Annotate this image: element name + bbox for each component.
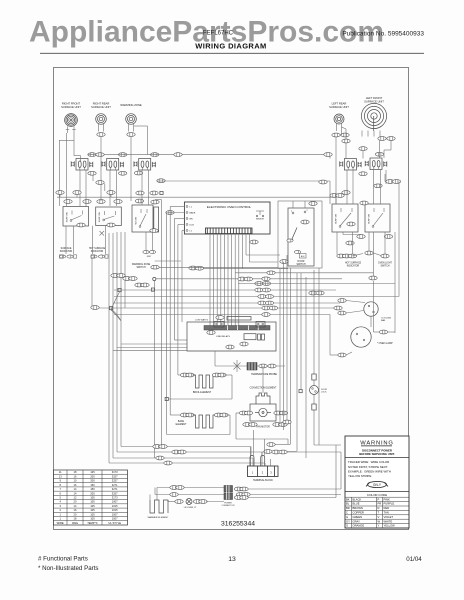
- wire SW1 drops: [80, 170, 86, 206]
- wire EOC pin L1 run: [170, 207, 184, 416]
- svg-text:EXAMPLE: GREEN WIRE WITH: EXAMPLE: GREEN WIRE WITH: [348, 469, 391, 473]
- wire prong feeds: [251, 430, 265, 456]
- terminal block TB1: [248, 455, 279, 482]
- svg-text:ELECTRONIC OVEN CONTROL: ELECTRONIC OVEN CONTROL: [207, 205, 252, 209]
- svg-text:PINK: PINK: [384, 497, 390, 501]
- svg-text:1015: 1015: [112, 504, 118, 508]
- warming zone switch SW3: [134, 153, 159, 175]
- wire SW5 drops: [374, 170, 381, 204]
- svg-text:TEMPERATURE PROBE: TEMPERATURE PROBE: [251, 373, 277, 376]
- wire convection loop: [236, 366, 288, 444]
- wire bottom bus y463: [109, 463, 265, 466]
- wire EOC comb drops: [189, 234, 374, 326]
- junction square broil return: [165, 397, 168, 400]
- wire mid drop x154: [153, 281, 155, 458]
- wire terminal feed drops: [262, 420, 291, 466]
- svg-text:SURF SW: SURF SW: [67, 211, 69, 222]
- junction node left: [110, 307, 113, 310]
- warning box: [345, 436, 409, 528]
- svg-text:WARMER ELEMENT: WARMER ELEMENT: [148, 516, 169, 519]
- svg-text:ORANGE: ORANGE: [353, 524, 365, 528]
- gn-y indicator ovals: [143, 250, 156, 257]
- wire left bundle v3: [116, 232, 118, 452]
- wire EOC pin DLB run: [178, 225, 185, 376]
- wire gauge table: [54, 470, 128, 525]
- svg-text:200: 200: [90, 474, 95, 478]
- warming zone switch label: [132, 263, 151, 269]
- svg-text:SURFACE UNIT: SURFACE UNIT: [91, 105, 111, 109]
- oven relay board K1: [187, 316, 276, 351]
- svg-text:200: 200: [90, 491, 95, 495]
- wire SW3 drops: [142, 170, 149, 205]
- hot surface indicator right label: [345, 261, 362, 267]
- wire twist cross: [111, 292, 121, 321]
- junction node left2: [118, 288, 121, 291]
- svg-text:105: 105: [90, 512, 95, 516]
- svg-text:G: G: [346, 515, 348, 519]
- wire warmer row loop: [150, 488, 224, 502]
- right rear surface unit switch SW2: [102, 153, 127, 176]
- wire B3 bottom drops: [146, 232, 153, 250]
- right block connector ovals: [330, 191, 393, 280]
- wire right bundle v5: [296, 273, 298, 451]
- svg-text:SWITCH: SWITCH: [296, 264, 305, 266]
- svg-text:GREEN: GREEN: [353, 515, 363, 519]
- wire B4 bottom drops: [337, 232, 361, 255]
- convection fan motor M1: [239, 404, 287, 428]
- oven sensor stub: [256, 210, 264, 212]
- comb drop ovals: [189, 266, 204, 270]
- warming zone switch block B3: [132, 199, 153, 232]
- footer functional parts note: [38, 556, 99, 573]
- left rear surface unit coil: [329, 102, 349, 137]
- wire left bundle v5: [124, 232, 126, 308]
- svg-text:HOT SURFACE: HOT SURFACE: [345, 261, 362, 264]
- svg-text:WIRING DIAGRAM: WIRING DIAGRAM: [195, 42, 266, 51]
- wire coil B lead down: [100, 137, 102, 201]
- svg-text:GN/Y: GN/Y: [147, 256, 152, 258]
- svg-text:105: 105: [90, 508, 95, 512]
- oven door switch: [287, 201, 317, 266]
- svg-text:SENSOR: SENSOR: [256, 219, 265, 221]
- junction circle mid: [153, 277, 156, 280]
- connector ovals row y176-192: [73, 179, 165, 195]
- svg-text:3271: 3271: [112, 483, 118, 487]
- wire left bundle v1: [108, 233, 110, 463]
- left front switch block B5: [365, 204, 390, 232]
- wire bus y278.8: [156, 277, 342, 281]
- right circle ovals: [338, 299, 388, 357]
- junction node left3: [151, 288, 154, 291]
- svg-text:# Functional Parts: # Functional Parts: [38, 556, 88, 563]
- svg-text:BR: BR: [346, 506, 350, 510]
- wire B5 bottom drops: [369, 232, 385, 276]
- left front surface unit switch SW5: [365, 152, 387, 187]
- svg-text:105: 105: [90, 500, 95, 504]
- svg-text:LB OVEN LT: LB OVEN LT: [184, 507, 197, 509]
- hot surface indicator label: [89, 247, 108, 258]
- svg-text:SURFACE UNIT: SURFACE UNIT: [364, 99, 384, 103]
- wire SW5 right drop: [385, 170, 387, 184]
- door lock motor M2: [310, 380, 328, 395]
- svg-text:C: C: [346, 511, 348, 515]
- wire bottom bus y452: [117, 451, 341, 453]
- svg-text:HOT SURFACE: HOT SURFACE: [89, 247, 106, 250]
- wire right bundle v6: [300, 273, 302, 390]
- wire SW2 drops: [110, 170, 117, 206]
- left rear switch block B4: [332, 204, 358, 232]
- svg-text:AWG: AWG: [72, 521, 78, 525]
- svg-text:WZ SW: WZ SW: [136, 216, 138, 224]
- connector oval left of door switch: [280, 260, 288, 264]
- svg-text:V: V: [378, 515, 380, 519]
- svg-text:SURFACE UNIT: SURFACE UNIT: [61, 105, 81, 109]
- wire left bundle v4: [120, 232, 122, 447]
- oven lamp LB1: [351, 327, 393, 347]
- svg-text:R: R: [378, 506, 380, 510]
- svg-text:BLACK: BLACK: [353, 497, 362, 501]
- svg-text:BK: BK: [346, 497, 350, 501]
- svg-text:TAN: TAN: [384, 511, 389, 515]
- wire bus y261: [155, 260, 181, 262]
- svg-text:FAN: FAN: [381, 319, 386, 322]
- wire bus y296.5: [114, 296, 399, 298]
- svg-text:200: 200: [90, 479, 95, 483]
- wire coil A left lead: [66, 133, 68, 206]
- svg-text:TERMINAL BLOCK: TERMINAL BLOCK: [253, 479, 273, 482]
- wire right bundle v7: [305, 277, 307, 458]
- convection element label: [250, 388, 277, 390]
- svg-text:YELLOW: YELLOW: [384, 524, 396, 528]
- svg-text:DLB: DLB: [190, 225, 195, 227]
- bus right ovals: [309, 291, 342, 310]
- svg-text:* OVEN LAMP: * OVEN LAMP: [377, 342, 393, 345]
- svg-text:BL: BL: [346, 502, 350, 506]
- svg-text:BAKE: BAKE: [190, 212, 196, 215]
- junction square x161: [160, 191, 163, 194]
- svg-text:NOTED FIRST, STRIPE NEXT.: NOTED FIRST, STRIPE NEXT.: [348, 465, 388, 469]
- svg-text:1015: 1015: [112, 508, 118, 512]
- diagram border frame: [54, 68, 409, 530]
- svg-text:105: 105: [90, 517, 95, 521]
- svg-text:INDICATOR: INDICATOR: [347, 264, 360, 267]
- wire coil D right jog: [342, 127, 351, 159]
- svg-text:BEFORE SERVICING UNIT.: BEFORE SERVICING UNIT.: [359, 452, 395, 456]
- svg-text:01/04: 01/04: [406, 556, 422, 563]
- svg-text:FAN MOTOR: FAN MOTOR: [256, 425, 270, 428]
- wire motor links: [330, 301, 395, 356]
- svg-text:PR: PR: [378, 502, 382, 506]
- wire coil A right jog: [59, 140, 74, 206]
- wire jogs to y197: [60, 175, 111, 197]
- cooling fan motor M3: [364, 302, 392, 322]
- svg-text:125: 125: [90, 470, 95, 474]
- wire bus y181: [157, 180, 330, 204]
- wire power lines right: [248, 445, 341, 498]
- surface indicator label: [59, 247, 76, 258]
- wire right bundle v4: [290, 268, 292, 444]
- svg-text:FEFL67HC: FEFL67HC: [203, 31, 234, 37]
- svg-text:3257: 3257: [112, 491, 118, 495]
- wire mid horizontals y344-351: [113, 344, 187, 351]
- bottom bus ovals: [153, 445, 186, 465]
- svg-text:ELEMENT: ELEMENT: [176, 424, 187, 426]
- svg-text:BR: BR: [190, 219, 193, 221]
- wire bottom bus y446.5: [121, 447, 251, 467]
- temperature probe: [215, 360, 285, 376]
- wire coil E right ov lead: [384, 141, 391, 159]
- svg-text:SURF SW: SURF SW: [336, 213, 338, 224]
- wire far right vertical: [394, 232, 396, 333]
- wire coil E ov lead down: [379, 141, 381, 159]
- wire relay bottom links: [187, 351, 276, 366]
- svg-text:105: 105: [90, 495, 95, 499]
- bus oval y272.8: [250, 240, 275, 275]
- wire SW4 drops: [347, 170, 353, 204]
- wire EOC pin BR run: [174, 219, 187, 341]
- wire surface indicator drop: [91, 259, 92, 308]
- connector oval on EOC bake pin: [166, 211, 174, 215]
- wire coil A right lead: [74, 133, 81, 161]
- wire lock return ovals: [264, 443, 297, 454]
- svg-text:LINE RELAYS: LINE RELAYS: [216, 335, 230, 338]
- power connector P1: [222, 486, 235, 508]
- wire bus y283.5: [238, 283, 395, 285]
- part number 316255344: [221, 520, 255, 527]
- wire bus y199.6: [155, 199, 162, 201]
- wire B1 bottom drops: [66, 226, 74, 254]
- svg-text:DOOR: DOOR: [298, 261, 305, 263]
- right front surface unit coil: [61, 102, 81, 133]
- svg-text:GRAY: GRAY: [353, 519, 361, 523]
- svg-text:Publication No. 5995400933: Publication No. 5995400933: [342, 31, 424, 38]
- wire SW5 tab drop: [362, 151, 364, 159]
- warming zone switch block B3b: [150, 200, 159, 232]
- oven light switch label: [378, 262, 393, 267]
- svg-text:O: O: [346, 524, 348, 528]
- oven light LB2: [175, 499, 224, 509]
- wire left bundle v2: [112, 233, 114, 458]
- svg-text:150: 150: [90, 487, 95, 491]
- svg-text:CONNECTOR: CONNECTOR: [222, 505, 235, 507]
- svg-text:3173: 3173: [112, 495, 118, 499]
- oven door switch loop wire: [278, 201, 322, 268]
- electronic oven control U1: [184, 202, 270, 234]
- svg-text:3271: 3271: [112, 487, 118, 491]
- svg-text:3173: 3173: [112, 470, 118, 474]
- lock fuse bottom: [312, 395, 341, 446]
- svg-text:105: 105: [90, 504, 95, 508]
- junction square mid: [299, 390, 302, 393]
- wire left long drop: [161, 200, 163, 447]
- svg-text:GY: GY: [346, 519, 350, 523]
- power connector ovals: [234, 487, 250, 499]
- left front surface unit coil: [361, 96, 395, 140]
- svg-text:BLUE: BLUE: [353, 502, 360, 506]
- svg-text:OVEN LIGHT: OVEN LIGHT: [378, 262, 393, 264]
- wire EOC pin L2 run: [182, 231, 184, 323]
- surface unit switch block B2: [96, 200, 123, 227]
- svg-text:WHITE: WHITE: [384, 519, 393, 523]
- wire bus y303: [114, 302, 340, 304]
- svg-text:150: 150: [90, 483, 95, 487]
- footer page number: [228, 556, 236, 563]
- svg-text:BAKE: BAKE: [178, 420, 185, 423]
- svg-text:COPPER: COPPER: [353, 511, 364, 515]
- svg-text:3257: 3257: [112, 479, 118, 483]
- lock fuse top: [312, 374, 316, 380]
- svg-text:1007: 1007: [112, 500, 118, 504]
- svg-text:316255344: 316255344: [221, 520, 255, 527]
- wire coil C lead down: [130, 137, 132, 201]
- svg-text:* Non-Illustrated Parts: * Non-Illustrated Parts: [38, 565, 99, 572]
- connector oval mid left: [91, 306, 99, 310]
- svg-text:SURFACE UNIT: SURFACE UNIT: [329, 105, 349, 109]
- wire door loop right drop: [318, 268, 320, 445]
- svg-text:WARMING ZONE: WARMING ZONE: [132, 263, 151, 266]
- svg-text:SWITCH: SWITCH: [136, 267, 145, 269]
- wire bus y197: [57, 197, 336, 204]
- svg-text:WIRE: WIRE: [57, 521, 64, 525]
- wire B2 bottom drops: [93, 226, 106, 254]
- svg-text:Y: Y: [378, 524, 380, 528]
- svg-text:BROWN: BROWN: [353, 506, 363, 510]
- wire right bundle v2: [283, 262, 285, 430]
- wire bus y314.5: [114, 314, 330, 316]
- wire coil D right lead down: [341, 131, 343, 135]
- wire right bundle v3: [286, 255, 288, 420]
- svg-text:SURF SW: SURF SW: [99, 211, 101, 222]
- warming zone coil: [120, 103, 142, 136]
- terminal top oval link: [272, 450, 287, 454]
- svg-text:1007: 1007: [112, 517, 118, 521]
- svg-text:UL STYLE: UL STYLE: [108, 521, 121, 525]
- warmer element R-warm: [148, 500, 169, 519]
- wire bus y267.4: [159, 266, 278, 268]
- wire bus y290: [114, 289, 336, 291]
- broil element R-broil: [168, 373, 232, 399]
- svg-text:WARNING: WARNING: [360, 440, 393, 446]
- twist below B2: [100, 231, 105, 236]
- oval mid bundle: [151, 265, 159, 269]
- footer date: [406, 556, 422, 563]
- svg-text:RED: RED: [384, 506, 390, 510]
- svg-text:WARMING ZONE: WARMING ZONE: [120, 103, 142, 107]
- ladder connector ovals: [111, 274, 149, 287]
- svg-text:13: 13: [228, 556, 236, 563]
- svg-text:TRACER WIRE: WIRE COLOR: TRACER WIRE: WIRE COLOR: [348, 460, 389, 464]
- svg-text:P: P: [378, 497, 380, 501]
- wire bottom bus y458: [113, 458, 253, 466]
- bus connector ovals: [255, 282, 278, 317]
- wire lock column: [313, 270, 315, 374]
- wire B5 right run: [385, 174, 401, 297]
- right front surface unit switch SW1: [71, 153, 96, 176]
- left rear surface unit switch SW4: [339, 147, 367, 176]
- svg-text:LOW WATTS: LOW WATTS: [195, 319, 209, 322]
- convection element R-conv: [256, 393, 270, 404]
- svg-text:SWITCH: SWITCH: [380, 265, 389, 267]
- svg-text:VIOLET: VIOLET: [384, 515, 394, 519]
- warmer row ovals: [170, 486, 184, 497]
- svg-text:SURF SW: SURF SW: [369, 213, 371, 224]
- wire EOC pin BAKE run: [167, 213, 185, 435]
- svg-text:PURPLE: PURPLE: [384, 502, 395, 506]
- wire right bundle v1: [279, 269, 281, 424]
- wire indicator chain: [352, 253, 381, 332]
- relay connector ovals: [207, 331, 248, 349]
- bake element R-bake: [167, 413, 230, 434]
- wire coil D left lead down: [335, 137, 337, 204]
- svg-text:1007: 1007: [112, 512, 118, 516]
- wire bus y308: [99, 307, 334, 309]
- wire switch row link y154.5: [88, 153, 332, 159]
- svg-text:YELLOW STRIPE.: YELLOW STRIPE.: [348, 474, 372, 478]
- svg-text:COLOR CODE: COLOR CODE: [367, 493, 387, 497]
- right rear surface unit coil: [91, 102, 111, 137]
- svg-text:GN-Y: GN-Y: [373, 483, 382, 487]
- svg-text:TEMP°C: TEMP°C: [87, 521, 98, 525]
- header rule: [40, 52, 424, 54]
- surface unit switch block B1: [63, 200, 91, 227]
- svg-text:BROIL ELEMENT: BROIL ELEMENT: [193, 392, 212, 394]
- wire coil C lead right: [134, 126, 148, 155]
- svg-text:3257: 3257: [112, 474, 118, 478]
- connector ovals row y193: [56, 191, 158, 195]
- svg-text:LOCK: LOCK: [321, 391, 327, 393]
